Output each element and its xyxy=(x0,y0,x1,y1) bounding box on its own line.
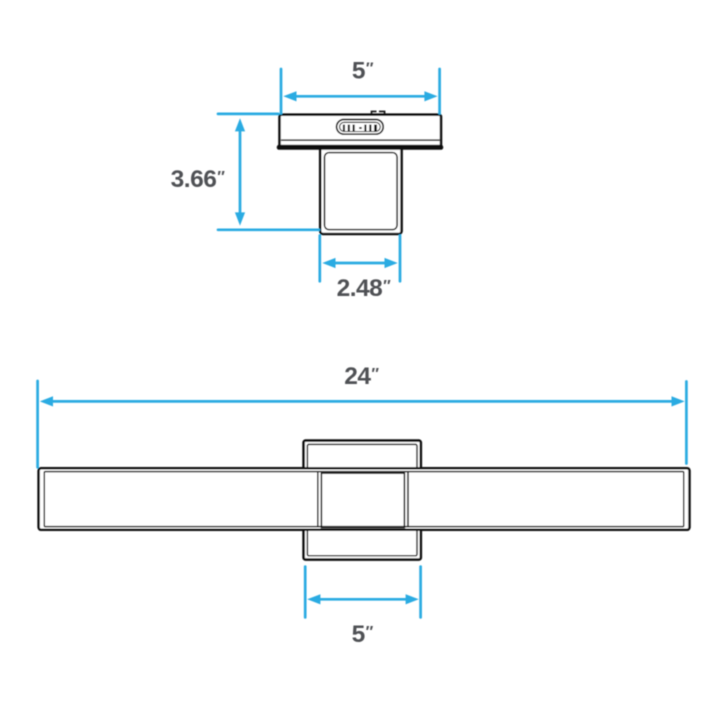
terminal middle dash xyxy=(359,127,362,129)
glass seam right xyxy=(407,472,409,527)
dimension 3.66-inch: up arrowhead xyxy=(235,118,245,131)
dimension 5-inch top: extension line left xyxy=(280,69,283,114)
dimension 5-inch bottom: dimension line xyxy=(311,598,415,601)
dimension 5-inch bottom: right arrowhead xyxy=(406,594,419,604)
dimension 2.48-inch: right arrowhead xyxy=(385,258,398,268)
dimension 24-inch: right arrowhead xyxy=(672,396,685,406)
dimension 3.66-inch: top extension line xyxy=(218,113,278,116)
mounting clip bumps above canopy xyxy=(372,111,385,114)
center canopy block inner liner xyxy=(307,444,417,555)
square body (top view) outer xyxy=(320,146,401,234)
dimension 5-inch bottom: left arrowhead xyxy=(307,594,320,604)
dimension 2.48-inch: extension line left xyxy=(318,236,321,282)
dimension 24-inch: extension line left xyxy=(36,381,39,467)
canopy bottom flange xyxy=(277,145,443,150)
dimension 24-inch: left arrowhead xyxy=(40,396,53,406)
dimension 2.48-inch: extension line right xyxy=(399,236,402,282)
canopy plate (top view) xyxy=(280,115,442,148)
terminal block detail inner xyxy=(340,122,381,131)
long bar outer (front view) xyxy=(39,468,690,530)
dimension 2.48-inch: dimension line xyxy=(326,262,394,265)
terminal bars group 2 xyxy=(364,125,377,132)
glass seam left xyxy=(317,472,319,527)
dimension 3.66-inch: bottom extension line xyxy=(218,228,319,231)
dimension 3.66-inch: down arrowhead xyxy=(235,212,245,225)
terminal bars group 1 xyxy=(343,125,355,132)
dimension 24-inch: extension line right xyxy=(685,382,688,464)
dimension 5-inch top: left arrowhead xyxy=(283,91,296,101)
dimension 2.48-inch: left arrowhead xyxy=(322,258,335,268)
dimension 24-inch: dimension line xyxy=(44,400,680,403)
dimension 3.66-inch: vertical dimension line xyxy=(239,127,242,217)
dimension 5-inch top: dimension line xyxy=(288,95,433,98)
dimension 5-inch top: right arrowhead xyxy=(424,91,437,101)
canopy seam line xyxy=(281,139,439,141)
dimension 5-inch bottom: extension line right xyxy=(419,567,422,618)
dimension 5-inch bottom: extension line left xyxy=(304,567,307,618)
center canopy block outer (front view) xyxy=(304,441,421,560)
square body (top view) inner liner xyxy=(325,153,398,230)
long bar inner liner xyxy=(44,472,683,527)
terminal block detail outer xyxy=(337,120,384,135)
center tube section rect xyxy=(321,473,404,527)
dimension 5-inch top: extension line right xyxy=(438,69,441,114)
